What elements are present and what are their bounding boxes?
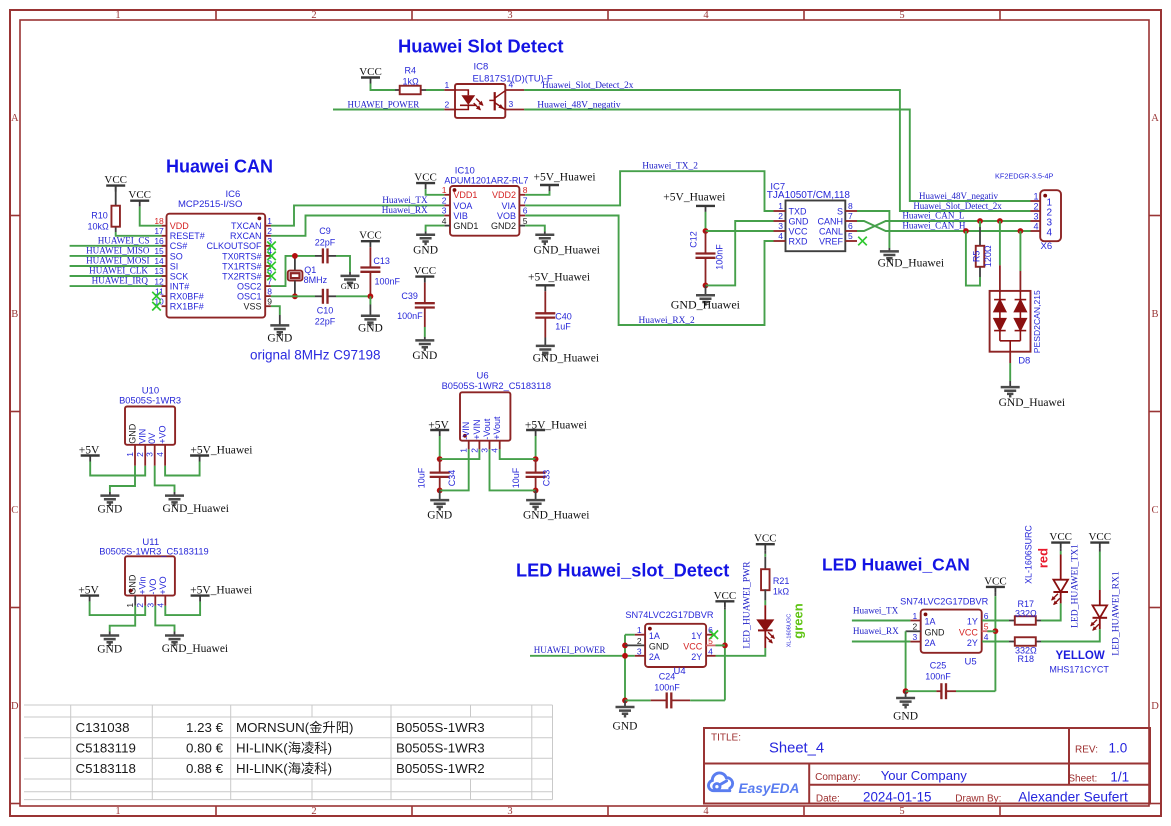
- svg-text:VCC: VCC: [683, 642, 703, 652]
- svg-text:GND_Huawei: GND_Huawei: [533, 353, 599, 365]
- wire U4 VCC pin link: [716, 644, 725, 646]
- svg-text:GND: GND: [613, 721, 638, 733]
- svg-text:16: 16: [154, 236, 164, 246]
- svg-text:3: 3: [145, 452, 155, 457]
- svg-text:C40: C40: [555, 312, 572, 322]
- svg-text:GND_Huawei: GND_Huawei: [523, 510, 589, 522]
- junction CAN_L at R5: [977, 218, 983, 224]
- IC U5 SN74LVC2G17DBVR body: [921, 610, 982, 653]
- svg-text:GND_Huawei: GND_Huawei: [162, 643, 228, 655]
- svg-text:1: 1: [125, 603, 135, 608]
- svg-text:C10: C10: [317, 306, 334, 316]
- svg-text:HUAWEI_POWER: HUAWEI_POWER: [348, 100, 420, 110]
- svg-text:+VIN: +VIN: [472, 419, 482, 439]
- capacitor C24: [666, 692, 668, 708]
- svg-text:Sheet_4: Sheet_4: [769, 741, 824, 757]
- wire IC6 OSC2 to crystal top node: [271, 256, 315, 286]
- svg-text:-VIN: -VIN: [461, 422, 471, 440]
- power flag +5V_Huawei (C40): [536, 284, 555, 286]
- IC6 pin1 orientation dot: [258, 217, 262, 221]
- svg-text:5: 5: [523, 216, 528, 226]
- junction C24 left: [622, 698, 628, 704]
- svg-text:GND: GND: [789, 216, 810, 226]
- svg-text:HUAWEI_POWER: HUAWEI_POWER: [534, 645, 606, 655]
- junction C12 top: [703, 228, 709, 234]
- svg-text:332Ω: 332Ω: [1015, 609, 1037, 619]
- svg-text:+Vout: +Vout: [492, 416, 502, 440]
- svg-text:HUAWEI_CS: HUAWEI_CS: [98, 235, 150, 245]
- svg-text:SCK: SCK: [170, 271, 189, 281]
- svg-text:6: 6: [523, 206, 528, 216]
- svg-text:9: 9: [267, 296, 272, 306]
- svg-text:1: 1: [442, 185, 447, 195]
- svg-text:120Ω: 120Ω: [983, 245, 993, 267]
- wire IC7 CANH crossover to CAN_H row: [857, 221, 1031, 231]
- IC10 pin1 orientation dot: [453, 188, 457, 192]
- power flag VCC (U5): [986, 586, 1005, 588]
- capacitor C9: [322, 248, 324, 263]
- svg-text:Huawei_RX_2: Huawei_RX_2: [639, 316, 696, 326]
- resistor R18: [1015, 637, 1036, 646]
- wire U11 +VO to +5V_Huawei: [165, 602, 200, 616]
- svg-text:SN74LVC2G17DBVR: SN74LVC2G17DBVR: [625, 610, 714, 620]
- junction C13 bottom: [368, 293, 374, 299]
- svg-text:1.0: 1.0: [1109, 741, 1128, 756]
- U4 left pin stubs: [635, 634, 645, 636]
- svg-text:GND: GND: [267, 332, 292, 344]
- junction CAN_L at D8: [997, 218, 1003, 224]
- IC6 no-connect marks left pins 11 10: [152, 292, 161, 301]
- svg-text:1A: 1A: [649, 631, 660, 641]
- svg-text:Huawei_Slot_Detect_2x: Huawei_Slot_Detect_2x: [913, 201, 1002, 211]
- svg-text:B: B: [1151, 309, 1158, 320]
- power flag +5V_Huawei (U11): [191, 594, 210, 596]
- svg-text:C13: C13: [373, 256, 390, 266]
- svg-text:GND: GND: [128, 574, 138, 595]
- resistor R5 bottom lead and hook to CAN_H: [979, 267, 981, 277]
- svg-text:LED_HUAWEI_TX1: LED_HUAWEI_TX1: [1070, 544, 1081, 628]
- power flag +5V_Huawei (U10): [190, 454, 209, 456]
- ground (U4): [624, 700, 626, 707]
- wire IC6 TXCAN to IC10 VOA net Huawei_TX: [271, 205, 444, 225]
- svg-text:HI-LINK(海凌科): HI-LINK(海凌科): [236, 740, 332, 755]
- ground (U10 GND_Huawei): [174, 492, 176, 496]
- svg-text:4: 4: [155, 603, 165, 608]
- svg-text:X6: X6: [1041, 241, 1053, 252]
- capacitor C25: [940, 683, 942, 699]
- optocoupler IC8 body: [455, 84, 505, 118]
- svg-text:GND: GND: [427, 510, 452, 522]
- wire IC8 pin3 to X6 pin1 net Huawei_48V_negativ: [524, 110, 1030, 202]
- svg-text:VCC: VCC: [984, 575, 1007, 587]
- LED green (XL-1606UGC): [758, 620, 773, 630]
- svg-text:8: 8: [523, 185, 528, 195]
- svg-text:C: C: [1151, 505, 1158, 516]
- wire VCC to IC10 VDD1: [426, 189, 445, 195]
- svg-text:VREF: VREF: [819, 236, 844, 246]
- svg-text:EasyEDA: EasyEDA: [739, 781, 800, 796]
- wire C24 right to VCC vertical: [690, 699, 725, 701]
- wire IC6 VSS to GND: [271, 306, 280, 315]
- svg-text:0.80 €: 0.80 €: [186, 740, 224, 755]
- svg-text:VCC: VCC: [754, 533, 777, 545]
- svg-text:5: 5: [899, 806, 904, 817]
- wire U4 1A branch: [625, 634, 635, 636]
- svg-text:1uF: 1uF: [555, 322, 571, 332]
- wire R18 to yellow LED: [1041, 634, 1100, 642]
- wire U4 2Y to LED column: [716, 648, 766, 656]
- svg-text:Sheet:: Sheet:: [1068, 774, 1097, 785]
- svg-text:C5183119: C5183119: [76, 740, 136, 755]
- wire U4 input tie vertical: [624, 635, 626, 701]
- svg-text:C: C: [11, 505, 18, 516]
- capacitor C10 leads: [315, 295, 323, 297]
- power flag +5V_Huawei (IC10): [540, 184, 559, 186]
- IC8 pin stubs: [444, 89, 455, 91]
- svg-text:7: 7: [523, 196, 528, 206]
- svg-text:2: 2: [445, 99, 450, 109]
- crystal Q1 top lead: [294, 256, 296, 271]
- svg-text:VIN: VIN: [138, 429, 148, 444]
- svg-text:3: 3: [507, 10, 512, 21]
- svg-text:2: 2: [135, 452, 145, 457]
- wire U10 0V pin to GND_Huawei: [155, 466, 175, 492]
- wire U5 VCC pin link: [987, 630, 995, 632]
- svg-text:1: 1: [115, 806, 120, 817]
- svg-text:1kΩ: 1kΩ: [773, 586, 790, 596]
- svg-text:1: 1: [115, 10, 120, 21]
- svg-text:U6: U6: [477, 371, 489, 382]
- svg-text:Huawei_TX: Huawei_TX: [853, 605, 899, 615]
- wire C25 right to VCC vertical: [956, 690, 995, 692]
- svg-text:VOA: VOA: [453, 201, 472, 211]
- power flag VCC (U4): [715, 600, 734, 602]
- ground (U11 GND_Huawei): [174, 632, 176, 636]
- ground (D8): [1009, 381, 1011, 387]
- svg-text:HI-LINK(海凌科): HI-LINK(海凌科): [236, 761, 332, 776]
- capacitor C13 leads: [369, 247, 371, 267]
- svg-text:B0505S-1WR3_C5183119: B0505S-1WR3_C5183119: [99, 547, 208, 557]
- svg-text:Your Company: Your Company: [881, 768, 968, 783]
- resistor R21 leads: [764, 550, 766, 554]
- svg-text:1A: 1A: [925, 617, 936, 627]
- svg-text:RESET#: RESET#: [170, 231, 205, 241]
- svg-text:2: 2: [135, 603, 145, 608]
- wire IC7 S pin to GND_Huawei: [857, 211, 889, 248]
- ground (C39): [424, 337, 426, 340]
- svg-text:Drawn By:: Drawn By:: [955, 793, 1001, 804]
- resistor R21: [761, 569, 770, 590]
- wire U11 GND pin to GND: [110, 606, 136, 632]
- wire D8 to GND_Huawei: [1009, 352, 1011, 363]
- svg-text:+5V_Huawei: +5V_Huawei: [525, 420, 587, 432]
- svg-text:1Y: 1Y: [967, 617, 978, 627]
- svg-text:R10: R10: [91, 210, 108, 220]
- power flag +5V_Huawei (U6): [526, 429, 545, 431]
- capacitor C13: [360, 266, 380, 268]
- wire U5 2Y to R18: [982, 641, 1009, 643]
- junction U5 VCC pin: [993, 628, 999, 634]
- svg-text:+5V_Huawei: +5V_Huawei: [190, 444, 252, 456]
- svg-text:-Vout: -Vout: [482, 418, 492, 440]
- wire IC10 GND1 to GND: [426, 226, 445, 232]
- svg-text:VCC: VCC: [1088, 531, 1111, 543]
- resistor R10 leads: [115, 186, 117, 207]
- svg-text:orignal 8MHz C97198: orignal 8MHz C97198: [250, 348, 381, 363]
- svg-text:RXD: RXD: [789, 236, 809, 246]
- svg-text:1kΩ: 1kΩ: [403, 77, 420, 87]
- wire CAN_H junction down to D8 pin: [1019, 231, 1021, 271]
- capacitor C25 leads: [906, 690, 937, 692]
- junction C34 top: [437, 456, 443, 462]
- svg-text:LED Huawei_CAN: LED Huawei_CAN: [822, 555, 970, 575]
- power flag +5V (U11): [80, 594, 99, 596]
- U6 pin stubs: [468, 441, 470, 450]
- wire C33 bottom to U6 -Vout: [490, 449, 536, 490]
- IC8 internal phototransistor: [494, 92, 496, 110]
- svg-text:C39: C39: [401, 291, 418, 301]
- svg-text:VCC: VCC: [789, 226, 809, 236]
- svg-text:TX0RTS#: TX0RTS#: [222, 251, 261, 261]
- junction crystal top: [292, 253, 298, 259]
- svg-text:A: A: [11, 113, 19, 124]
- ground (IC10 GND2): [544, 232, 546, 235]
- DCDC converter U11 body: [125, 556, 175, 595]
- capacitor C39 leads: [424, 283, 426, 304]
- power flag VCC (IC6 VDD): [130, 199, 149, 201]
- svg-text:B0505S-1WR3: B0505S-1WR3: [396, 740, 485, 755]
- svg-text:VDD: VDD: [170, 221, 190, 231]
- red LED cathode lead: [1060, 592, 1062, 603]
- ground (C40): [544, 338, 546, 346]
- svg-text:100nF: 100nF: [397, 311, 423, 321]
- svg-text:+5V: +5V: [78, 585, 99, 597]
- svg-text:100nF: 100nF: [715, 244, 725, 270]
- junction U4 pin3 node: [622, 653, 628, 659]
- resistor R17 leads: [1009, 620, 1015, 622]
- svg-text:SI: SI: [170, 261, 179, 271]
- svg-text:3: 3: [509, 99, 514, 109]
- IC7 pin stubs: [774, 210, 786, 212]
- svg-text:Company:: Company:: [815, 772, 861, 783]
- svg-text:R5: R5: [971, 251, 981, 263]
- U4 1Y no-connect: [710, 630, 719, 639]
- resistor R10: [111, 206, 120, 227]
- svg-text:14: 14: [154, 256, 164, 266]
- svg-text:GND: GND: [97, 643, 122, 655]
- wire Huawei_RX to U5 2A: [852, 641, 911, 643]
- svg-text:+VO: +VO: [158, 576, 168, 594]
- ground (IC7 S): [888, 248, 890, 251]
- svg-text:D: D: [11, 701, 19, 712]
- svg-text:TXCAN: TXCAN: [231, 221, 262, 231]
- svg-text:HUAWEI_CLK: HUAWEI_CLK: [89, 266, 148, 276]
- svg-text:GND: GND: [341, 281, 359, 291]
- wire VCC to U4 VCC and C24: [724, 607, 726, 609]
- LED yellow (MHS171CYCT): [1093, 605, 1108, 617]
- U5 left pin stubs: [910, 620, 920, 622]
- svg-text:LED_HUAWEI_RX1: LED_HUAWEI_RX1: [1111, 571, 1122, 656]
- power flag VCC (R10): [106, 184, 125, 186]
- ground (U6 GND_Huawei): [535, 490, 537, 500]
- svg-text:GND: GND: [128, 423, 138, 444]
- svg-text:17: 17: [154, 226, 164, 236]
- svg-text:D8: D8: [1018, 356, 1030, 367]
- svg-text:A: A: [1151, 113, 1159, 124]
- svg-text:XL-1606SURC: XL-1606SURC: [1024, 525, 1034, 584]
- svg-text:INT#: INT#: [170, 282, 190, 292]
- wire C33 node to U6 +Vout: [500, 449, 536, 459]
- svg-text:B: B: [11, 309, 18, 320]
- junction CAN_H at R5 hook: [963, 228, 969, 234]
- svg-text:B0505S-1WR2: B0505S-1WR2: [396, 761, 485, 776]
- power flag VCC (IC10 VDD1): [416, 182, 435, 184]
- wire R17 to red LED: [1041, 608, 1061, 621]
- svg-text:+Vin: +Vin: [138, 576, 148, 594]
- svg-text:GND_Huawei: GND_Huawei: [534, 244, 600, 256]
- LED green anode lead: [764, 605, 766, 620]
- capacitor C34 leads: [439, 459, 441, 473]
- svg-text:VCC: VCC: [128, 189, 151, 201]
- svg-text:CANH: CANH: [817, 216, 843, 226]
- svg-text:ADUM1201ARZ-RL7: ADUM1201ARZ-RL7: [444, 176, 528, 186]
- svg-text:2: 2: [311, 10, 316, 21]
- power flag VCC (red LED): [1051, 541, 1070, 543]
- svg-text:MHS171CYCT: MHS171CYCT: [1049, 665, 1109, 675]
- svg-text:VIB: VIB: [453, 211, 468, 221]
- svg-text:R21: R21: [773, 576, 790, 586]
- svg-text:TJA1050T/CM,118: TJA1050T/CM,118: [767, 190, 851, 201]
- svg-text:4: 4: [703, 10, 709, 21]
- svg-text:IC8: IC8: [474, 62, 489, 73]
- svg-text:2Y: 2Y: [691, 652, 702, 662]
- capacitor C40: [535, 312, 555, 314]
- ground (IC10 GND1): [425, 232, 427, 235]
- svg-text:HUAWEI_MOSI: HUAWEI_MOSI: [86, 256, 149, 266]
- ground (U11): [109, 632, 111, 636]
- svg-text:+5V_Huawei: +5V_Huawei: [663, 192, 725, 204]
- svg-text:Huawei CAN: Huawei CAN: [166, 157, 273, 177]
- svg-text:C34: C34: [447, 470, 457, 487]
- wire VCC to R4: [371, 84, 396, 91]
- power flag VCC (yellow LED): [1090, 541, 1109, 543]
- power flag +5V (U10): [81, 454, 100, 456]
- wire U10 GND pin to GND: [110, 466, 135, 492]
- svg-text:1.23 €: 1.23 €: [186, 720, 224, 735]
- capacitor C33 leads: [535, 459, 537, 473]
- svg-text:100nF: 100nF: [654, 682, 680, 692]
- svg-text:6: 6: [984, 611, 989, 621]
- svg-text:1: 1: [445, 80, 450, 90]
- svg-text:B0505S-1WR3: B0505S-1WR3: [119, 396, 181, 406]
- svg-text:GND: GND: [893, 711, 918, 723]
- U11 pin stubs: [134, 596, 136, 606]
- svg-text:TITLE:: TITLE:: [711, 733, 741, 744]
- svg-text:3: 3: [507, 806, 512, 817]
- svg-text:S: S: [837, 206, 843, 216]
- svg-text:3: 3: [480, 448, 490, 453]
- ground (U6): [439, 490, 441, 500]
- svg-text:Huawei_CAN_L: Huawei_CAN_L: [902, 211, 965, 221]
- svg-text:2Y: 2Y: [967, 638, 978, 648]
- svg-text:4: 4: [509, 80, 514, 90]
- wire Huawei_TX to U5 1A: [852, 620, 911, 622]
- svg-text:8: 8: [848, 201, 853, 211]
- svg-text:PESD2CAN,215: PESD2CAN,215: [1032, 290, 1042, 353]
- svg-text:5: 5: [899, 10, 904, 21]
- connector X6 pin1 dot: [1043, 194, 1047, 198]
- svg-text:SO: SO: [170, 251, 183, 261]
- wire +5V down to C34 node: [439, 436, 441, 459]
- svg-text:CS#: CS#: [170, 241, 188, 251]
- svg-text:6: 6: [848, 221, 853, 231]
- wire C12 top to IC7 VCC: [706, 230, 774, 232]
- svg-text:8: 8: [267, 286, 272, 296]
- svg-text:HUAWEI_MISO: HUAWEI_MISO: [86, 246, 150, 256]
- svg-text:GND: GND: [413, 244, 438, 256]
- svg-text:VCC: VCC: [359, 66, 382, 78]
- svg-text:red: red: [1036, 548, 1051, 568]
- svg-text:RXCAN: RXCAN: [230, 231, 262, 241]
- svg-text:VDD1: VDD1: [453, 190, 477, 200]
- wire U10 +VO to +5V_Huawei: [165, 462, 200, 476]
- svg-text:3: 3: [145, 603, 155, 608]
- svg-text:1Y: 1Y: [691, 631, 702, 641]
- svg-text:4: 4: [1047, 228, 1053, 239]
- wire C9 to GND: [336, 256, 350, 272]
- wire +5V_Huawei down to C33 node: [535, 436, 537, 459]
- resistor R4: [400, 86, 421, 95]
- TVS diode array D8 body: [990, 291, 1031, 352]
- svg-text:2: 2: [1033, 202, 1038, 212]
- svg-text:Huawei_RX: Huawei_RX: [853, 626, 899, 636]
- svg-text:GND: GND: [97, 504, 122, 516]
- wire C34 bottom to U6 -VIN: [440, 449, 469, 490]
- U10 pin stubs: [134, 445, 136, 466]
- svg-text:1/1: 1/1: [1110, 770, 1129, 785]
- wire U4 GND stub link: [625, 644, 645, 646]
- svg-text:22pF: 22pF: [315, 237, 336, 247]
- svg-text:LED_HUAWEI_PWR: LED_HUAWEI_PWR: [742, 561, 753, 649]
- wire C34 node to U6 +VIN: [440, 449, 480, 459]
- svg-text:+5V: +5V: [79, 444, 100, 456]
- wire C10 to C13 junction: [336, 295, 370, 297]
- BOM table grid: [24, 705, 553, 800]
- wire junction to GND (C13): [369, 296, 371, 304]
- TVS D8 internal diodes: [994, 291, 1006, 341]
- ground (C13 node): [369, 305, 371, 316]
- DCDC converter U10 body: [125, 407, 175, 445]
- svg-text:VSS: VSS: [243, 302, 261, 312]
- capacitor C10: [322, 289, 324, 304]
- wire IC6 RXCAN to IC10 VIB net Huawei_RX: [271, 216, 444, 236]
- svg-text:Huawei_48V_negativ: Huawei_48V_negativ: [919, 191, 998, 201]
- TVS D8 pin leads: [999, 265, 1001, 291]
- crystal Q1 bottom lead: [294, 281, 296, 297]
- svg-text:2: 2: [311, 806, 316, 817]
- IC IC10 ADUM1201 body: [450, 186, 519, 236]
- svg-text:REV:: REV:: [1075, 745, 1098, 756]
- wire CAN_L junction down to D8 pin: [999, 221, 1001, 265]
- svg-text:4: 4: [1033, 222, 1038, 232]
- svg-text:2: 2: [778, 211, 783, 221]
- junction CAN_H at D8: [1018, 228, 1024, 234]
- yellow LED anode lead: [1099, 549, 1101, 552]
- power flag VCC (C13): [361, 240, 380, 242]
- svg-text:VCC: VCC: [413, 265, 436, 277]
- svg-text:CANL: CANL: [819, 226, 843, 236]
- IC6 left pin stubs: [162, 225, 167, 227]
